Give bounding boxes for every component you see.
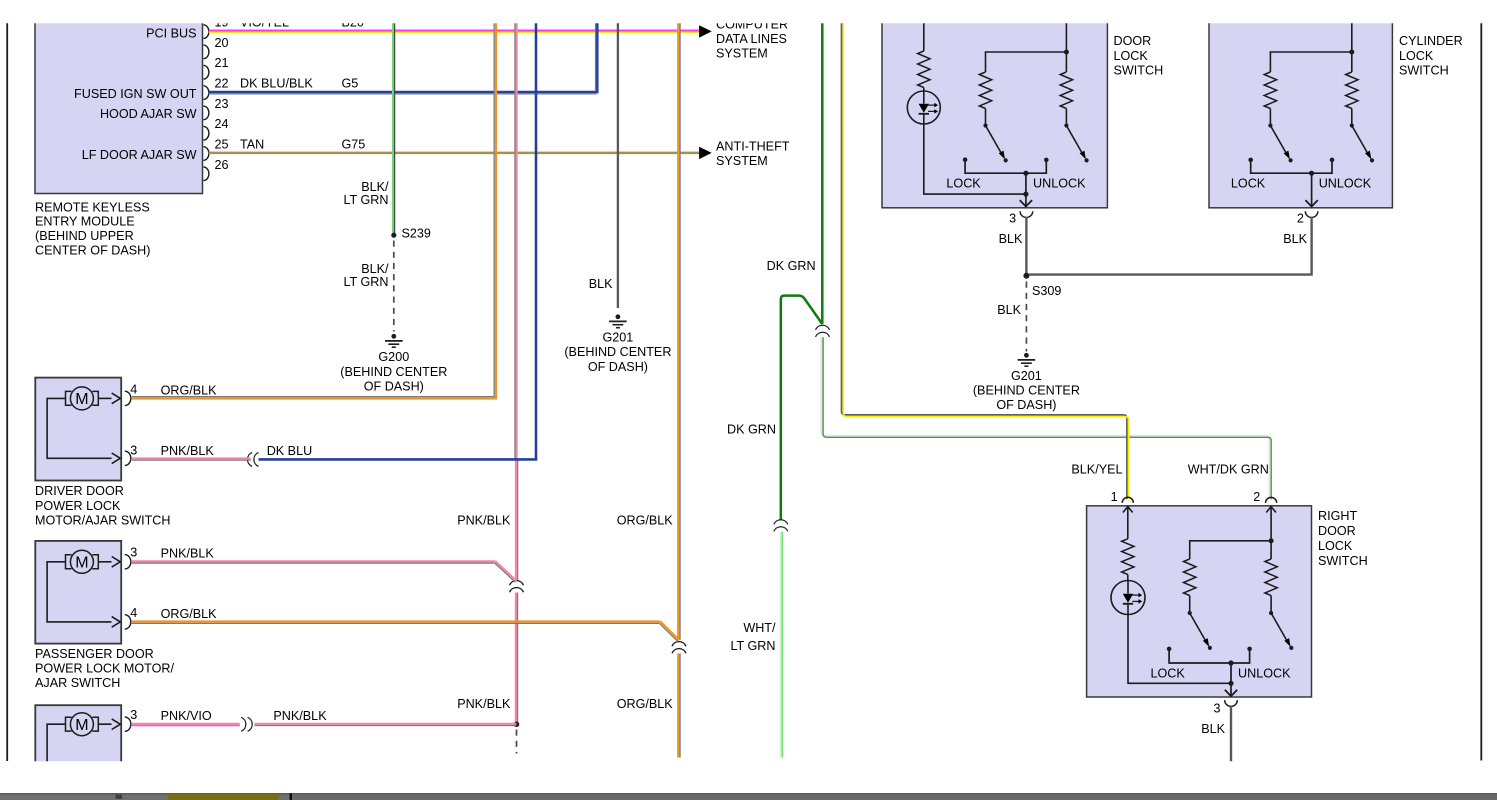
wire WHT/LT GRN continues down [780,532,782,758]
svg-text:3: 3 [130,443,137,457]
svg-text:G5: G5 [342,77,359,91]
pin 2 entry arrow [1266,507,1276,513]
inline connector on ORG/BLK [672,642,686,647]
svg-text:SWITCH: SWITCH [1318,554,1368,568]
svg-text:DOOR: DOOR [1318,524,1356,538]
wire pin 2 down [1270,507,1272,541]
svg-text:LOCK: LOCK [1151,666,1186,680]
wire VIO/YEL from pin 19 [209,30,700,32]
svg-text:CYLINDER: CYLINDER [1399,34,1463,48]
svg-text:PNK/BLK: PNK/BLK [457,513,511,527]
svg-text:ORG/BLK: ORG/BLK [617,697,674,711]
wire resistor to LED [923,88,925,92]
ground G201 right [1024,353,1029,358]
connector )) on wire [241,717,246,731]
svg-text:LT GRN: LT GRN [343,275,388,289]
junction bracket center [1023,171,1028,176]
ground G201 center [616,314,621,319]
wire TAN G75 from pin 25 [209,152,700,155]
svg-text:PNK/BLK: PNK/BLK [161,444,215,458]
svg-text:LT GRN: LT GRN [730,639,775,653]
svg-text:POWER LOCK MOTOR/: POWER LOCK MOTOR/ [35,662,175,676]
motor M3 [70,713,93,736]
svg-text:22: 22 [215,77,229,91]
module pin 24 connector [204,126,209,140]
wire LED to bottom rail [1128,615,1231,684]
taskbar [0,793,1497,800]
svg-text:PNK/BLK: PNK/BLK [273,709,327,723]
svg-text:LOCK: LOCK [1399,49,1434,63]
junction top feed [1064,50,1069,55]
module pin 25 connector [204,147,209,161]
resistor LED branch [918,51,930,88]
wire PNK/BLK vertical upper [515,10,517,460]
wire DK BLU/BLK G5 from pin 22 [209,91,599,94]
pin 3 connector [125,717,131,731]
svg-text:PNK/VIO: PNK/VIO [161,709,212,723]
motor M1 [70,387,93,410]
door lock switch box [882,8,1107,208]
svg-text:LOCK: LOCK [1231,177,1266,191]
svg-text:BLK: BLK [999,232,1023,246]
svg-text:OF DASH): OF DASH) [588,360,648,374]
wire unlock branch down [1270,541,1272,559]
svg-text:20: 20 [215,36,229,50]
wire PNK/VIO pin 3 [132,723,240,725]
resistor lock branch [979,72,991,109]
LED indicator [1111,581,1145,615]
svg-text:BLK/YEL: BLK/YEL [1071,462,1122,476]
svg-text:SWITCH: SWITCH [1399,63,1449,77]
svg-text:3: 3 [1213,702,1220,716]
splice junction [514,722,520,728]
inline connector on DK GRN left branch [774,520,788,525]
svg-text:WHT/DK GRN: WHT/DK GRN [1188,462,1269,476]
wire pin 1 down [1127,507,1129,539]
svg-text:BLK: BLK [589,277,613,291]
taskbar olive segment [168,794,279,800]
wire ORG/BLK pin 4 [132,397,497,399]
arrow to anti-theft system [699,147,712,159]
LED indicator [907,91,940,124]
module pin 26 connector [204,167,209,181]
svg-text:BLK/: BLK/ [361,180,389,194]
inline connector on DK GRN vertical [816,325,830,330]
svg-text:3: 3 [130,546,137,560]
svg-text:UNLOCK: UNLOCK [1319,177,1372,191]
wire PNK/BLK pin 3 [132,457,251,459]
bracket lock/unlock [1167,647,1172,652]
wire top rail left [1270,52,1351,72]
wire DK BLU/BLK vertical up [596,10,599,93]
junction pin 2 rail [1269,538,1274,543]
svg-text:M: M [75,391,88,408]
svg-text:LOCK: LOCK [1318,539,1353,553]
svg-text:LT GRN: LT GRN [343,193,388,207]
pin 3 arrow [112,557,121,568]
svg-text:G200: G200 [378,350,409,364]
svg-text:(BEHIND CENTER: (BEHIND CENTER [564,345,671,359]
resistor unlock branch [1346,72,1358,109]
pin 4 arrow [112,617,121,628]
resistor unlock branch [1060,72,1072,109]
wire bracket to pin 3 [1025,173,1027,207]
svg-text:RIGHT: RIGHT [1318,509,1357,523]
pin 1 socket [1122,497,1133,503]
junction bracket center [1309,171,1314,176]
svg-text:OF DASH): OF DASH) [996,398,1056,412]
svg-text:ORG/BLK: ORG/BLK [161,383,218,397]
remote keyless entry module box [35,8,203,194]
module pin 23 connector [204,106,209,120]
wire right branch down [1351,52,1353,72]
svg-text:HOOD AJAR SW: HOOD AJAR SW [100,107,197,121]
wire BLK/LT GRN vertical [392,10,394,233]
wire to LED branch [923,10,925,51]
svg-text:BLK: BLK [1201,722,1225,736]
svg-text:(BEHIND CENTER: (BEHIND CENTER [340,365,447,379]
svg-text:LOCK: LOCK [946,177,981,191]
switch arm unlock [1064,123,1068,127]
wire BLK below pin 3 [1230,706,1232,762]
svg-text:(BEHIND CENTER: (BEHIND CENTER [973,383,1080,397]
svg-text:25: 25 [215,138,229,152]
dashed BLK wire to G200 [393,241,395,332]
cylinder lock switch box [1209,8,1392,208]
svg-text:OF DASH): OF DASH) [364,379,424,393]
wire right branch down [1065,52,1067,72]
module pin 20 connector [204,45,209,59]
svg-text:2: 2 [1253,490,1260,504]
bracket lock/unlock [963,157,968,162]
pin 3 connector [125,451,131,465]
ground G200 [391,334,396,339]
svg-text:(BEHIND UPPER: (BEHIND UPPER [35,229,134,243]
wire BLK from cylinder lock switch pin 2 [1029,217,1312,275]
switch arm unlock [1350,123,1354,127]
svg-text:PNK/BLK: PNK/BLK [457,697,511,711]
wire ORG/BLK pin 4 with diagonal [132,620,660,622]
passenger door power lock motor box [35,541,121,644]
motor M2 [70,550,93,573]
wire ORG/BLK vertical 2 lower [677,654,679,758]
pin 3 arrow [112,453,121,464]
svg-text:SYSTEM: SYSTEM [716,154,768,168]
wire bracket to pin 2 [1311,173,1313,207]
svg-text:S309: S309 [1032,284,1061,298]
svg-text:ENTRY MODULE: ENTRY MODULE [35,215,135,229]
wire DK BLU horizontal to driver door pin 3 [259,458,538,461]
svg-text:4: 4 [130,606,137,620]
resistor LED branch [1122,539,1134,575]
pin 4 connector [125,391,131,405]
svg-text:DOOR: DOOR [1114,34,1152,48]
svg-text:S239: S239 [402,226,431,240]
arrow pin 3 exit [1020,200,1032,206]
switch arm unlock [1269,611,1273,615]
svg-text:M: M [75,555,88,572]
dashed wire below junction [516,730,518,754]
svg-text:23: 23 [215,97,229,111]
module pin 19 connector [204,25,209,39]
svg-text:MOTOR/AJAR SWITCH: MOTOR/AJAR SWITCH [35,513,171,527]
pin 2 socket [1266,497,1277,503]
svg-text:BLK/: BLK/ [361,262,389,276]
wire PNK/BLK pin 3 with diagonal [132,560,496,562]
svg-text:WHT/: WHT/ [743,621,776,635]
rail to lock resistor [1190,541,1271,559]
wire DK GRN vertical right [821,10,824,324]
wire BLK vertical center [617,10,619,308]
wire BLK/YEL [842,10,1127,499]
junction LED rail [1228,681,1233,686]
wire BLK from door lock switch pin 3 [1025,217,1027,275]
pin 4 connector [125,615,131,629]
svg-text:3: 3 [130,708,137,722]
arrow to computer data lines system [699,25,712,37]
svg-text:PCI BUS: PCI BUS [146,26,196,40]
pin 2 socket [1305,211,1318,217]
arrow pin 2 exit [1305,200,1317,206]
svg-text:24: 24 [215,117,229,131]
svg-text:ANTI-THEFT: ANTI-THEFT [716,139,790,153]
junction top feed [1349,50,1354,55]
svg-text:POWER LOCK: POWER LOCK [35,499,121,513]
wire LED to bottom rail [924,124,1026,194]
svg-text:PASSENGER DOOR: PASSENGER DOOR [35,647,154,661]
svg-text:UNLOCK: UNLOCK [1238,666,1291,680]
svg-text:ORG/BLK: ORG/BLK [161,607,218,621]
wire DK BLU vertical [535,10,538,461]
wire top feed [1351,10,1353,52]
svg-text:SYSTEM: SYSTEM [716,47,768,61]
dashed BLK wire to G201 [1025,282,1027,352]
svg-text:G201: G201 [602,331,633,345]
svg-text:SWITCH: SWITCH [1114,63,1164,77]
svg-text:4: 4 [130,382,137,396]
wire WHT/DK GRN [821,337,1269,499]
svg-text:TAN: TAN [240,137,264,151]
motor wiring loop [47,562,111,622]
svg-text:26: 26 [215,158,229,172]
wire ORG/BLK vertical 1 [495,10,497,398]
connector (( on DK BLU [247,452,252,466]
svg-text:DATA LINES: DATA LINES [716,32,787,46]
wire DK GRN branch to left [781,296,823,520]
switch arm lock [1268,123,1272,127]
pin 3 connector [125,555,131,569]
resistor unlock branch [1265,559,1277,596]
module pin 21 connector [204,65,209,79]
resistor lock branch [1264,72,1276,109]
motor wiring loop [47,398,111,458]
module pin 22 connector [204,86,209,100]
svg-text:LOCK: LOCK [1114,49,1149,63]
svg-text:FUSED IGN SW OUT: FUSED IGN SW OUT [74,87,197,101]
bracket lock/unlock [1248,158,1253,163]
wire top feed [1065,10,1067,52]
svg-text:21: 21 [215,56,229,70]
svg-text:REMOTE KEYLESS: REMOTE KEYLESS [35,200,150,214]
svg-text:UNLOCK: UNLOCK [1033,177,1086,191]
pin 3 socket [1020,211,1033,217]
svg-text:1: 1 [1111,490,1118,504]
taskbar icon mark [116,795,123,799]
svg-text:M: M [75,717,88,734]
svg-text:DRIVER DOOR: DRIVER DOOR [35,484,124,498]
right door lock switch box [1087,506,1312,697]
svg-text:AJAR SWITCH: AJAR SWITCH [35,676,120,690]
inline connector on PNK/BLK [510,581,524,586]
diagram right border [1480,22,1482,761]
wire top rail left [986,52,1067,72]
svg-text:BLK: BLK [1283,232,1307,246]
pin 3 socket [1225,700,1238,706]
junction bracket center [1228,660,1233,665]
switch arm lock [1188,611,1192,615]
wire PNK/BLK to splice [255,723,517,725]
driver door power lock motor box [35,378,121,481]
svg-text:3: 3 [1009,212,1016,226]
svg-text:PNK/BLK: PNK/BLK [161,547,215,561]
svg-text:LF DOOR AJAR SW: LF DOOR AJAR SW [82,148,197,162]
pin 1 entry arrow [1123,507,1133,513]
wire ORG/BLK vertical 2 upper [677,10,679,640]
pin 4 arrow [112,393,121,404]
wire PNK/BLK vertical lower [515,593,517,724]
svg-text:BLK: BLK [997,303,1021,317]
splice S239 [391,233,396,238]
taskbar divider [290,793,292,800]
svg-text:2: 2 [1297,212,1304,226]
svg-text:DK BLU/BLK: DK BLU/BLK [240,77,313,91]
svg-text:DK BLU: DK BLU [267,444,313,458]
rear door power lock motor box [35,705,121,800]
svg-text:G201: G201 [1011,369,1042,383]
svg-text:DK GRN: DK GRN [727,423,776,437]
junction LED rail [1023,192,1028,197]
svg-text:DK GRN: DK GRN [767,259,816,273]
pin 3 arrow [112,719,121,730]
switch arm lock [983,123,987,127]
wire bracket to pin 3 [1230,663,1232,696]
resistor lock branch [1184,559,1196,596]
svg-text:ORG/BLK: ORG/BLK [617,513,674,527]
arrow pin 3 exit [1225,690,1237,696]
diagram left border [6,22,8,761]
splice S309 [1023,273,1029,279]
motor wiring loop [47,724,65,762]
svg-text:CENTER OF DASH): CENTER OF DASH) [35,243,150,257]
svg-text:G75: G75 [342,137,366,151]
